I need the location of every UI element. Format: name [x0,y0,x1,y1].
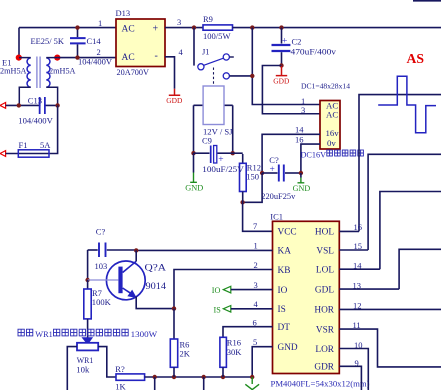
wire port to C13 [6,104,58,106]
svg-text:DC1=48x28x14: DC1=48x28x14 [301,82,350,91]
svg-text:AS: AS [407,52,425,67]
svg-text:16v: 16v [326,128,340,138]
wire LOL to right edge [380,192,441,270]
wire left drop to choke [18,28,20,58]
svg-text:GDL: GDL [315,285,334,295]
junction collector [134,248,138,252]
junction R12 bottom [240,200,244,204]
svg-text:100uF/25V: 100uF/25V [202,164,244,174]
svg-text:R?: R? [115,364,125,374]
wire WR1 right to R? [98,347,116,377]
wire WR1 left drop [67,347,77,390]
inductor E1 core [37,57,40,89]
junction J1 branch [192,25,196,29]
wire rail drop b [203,377,205,390]
svg-text:16: 16 [354,222,363,232]
svg-text:VSR: VSR [316,325,335,335]
junction GND rail [250,375,254,379]
waveform drawing [378,76,436,132]
svg-text:LOL: LOL [316,266,334,276]
capacitor C14 [77,28,79,38]
potentiometer WR1 [82,338,92,345]
svg-text:WR1: WR1 [35,330,53,339]
wire LOR drop [339,349,368,390]
junction C14 top [75,25,79,29]
power port GDD (D13) [169,89,180,96]
svg-text:IS: IS [214,305,222,314]
junction left port [17,103,21,107]
wire C2 to DC1 pin3 [262,66,320,114]
svg-text:2: 2 [254,260,258,270]
bridge rectifier D13 [116,19,165,67]
wire R9 to right edge rail [233,27,441,29]
node choke right top (red) [54,55,60,61]
svg-text:100K: 100K [92,297,112,307]
svg-text:9014: 9014 [146,281,167,291]
svg-text:4: 4 [254,299,259,309]
power port GDD (C2) [276,66,287,76]
wire VSL to right edge [368,154,441,250]
svg-text:1: 1 [254,241,258,251]
svg-text:AC: AC [326,110,338,120]
wire choke to D13 pin2 [57,57,116,59]
svg-text:KB: KB [278,266,291,276]
junction C9 right [231,151,235,155]
relay contact J1 [193,28,195,66]
svg-text:PM4040FL=54x30x12(mm): PM4040FL=54x30x12(mm) [271,380,370,389]
svg-text:10k: 10k [76,364,90,374]
svg-text:-: - [155,51,158,62]
wire C9 right to R12 [233,152,243,154]
wire rail drop a [154,377,156,390]
svg-text:16: 16 [295,135,304,145]
wire KA [136,249,272,251]
junction C? left [260,171,264,175]
svg-text:GDD: GDD [273,77,290,86]
svg-text:1: 1 [98,18,102,28]
wire HOL stub [339,230,359,232]
svg-text:VSL: VSL [316,246,334,256]
wire HOR to edge [339,308,441,310]
ground GND (relay) [193,153,195,172]
svg-text:Q?A: Q?A [145,263,167,273]
svg-text:AC: AC [122,25,135,35]
transistor Q?A 9014 [106,261,145,300]
svg-text:C13: C13 [28,96,42,106]
svg-text:1K: 1K [115,381,126,390]
svg-text:GDD: GDD [166,96,183,105]
svg-text:2: 2 [97,47,101,57]
wire bottom rail [145,376,253,378]
svg-text:IO: IO [212,286,221,295]
resistor R6 [173,309,175,339]
junction C13 right [55,103,59,107]
svg-text:C14: C14 [87,36,102,46]
wire to IC1 VCC [243,202,273,231]
wire GND pin5 [252,347,272,377]
svg-text:HOR: HOR [314,306,334,316]
junction R16 bottom [221,375,225,379]
svg-text:DT: DT [278,323,291,333]
wire D13 pin3 to R9 [165,27,203,29]
svg-text:2mH5A: 2mH5A [49,66,76,76]
svg-text:J1: J1 [202,47,210,57]
svg-text:HOL: HOL [315,228,334,238]
inductor E1 left winding [27,58,31,87]
svg-text:+: + [282,36,287,46]
svg-text:VCC: VCC [278,228,297,238]
svg-text:470uF/400v: 470uF/400v [291,46,337,56]
wire VSR to edge [339,329,441,367]
svg-text:R9: R9 [203,14,213,24]
svg-text:0v: 0v [327,138,336,148]
svg-text:F1: F1 [19,140,28,150]
resistor R7 [87,280,89,289]
junction C2 bottom [279,63,283,67]
wire R9 branch down to DC1 pin1 [252,28,320,105]
resistor R9 [203,25,233,30]
svg-text:GDR: GDR [314,363,334,373]
module DC1 [320,101,340,150]
svg-text:30K: 30K [227,347,243,357]
svg-text:KA: KA [278,247,292,257]
svg-text:LOR: LOR [315,345,334,355]
svg-text:C9: C9 [202,135,212,145]
svg-text:GND: GND [293,184,311,193]
wire port to fuse [6,105,58,153]
junction R6 bottom [172,375,176,379]
wire base node [87,250,89,280]
port L (red arrow) [0,103,6,109]
wire 16v node down to R12 bottom node [243,173,263,202]
junction C2 top [279,25,283,29]
junction C? right / 0v [299,171,303,175]
svg-text:3: 3 [254,280,258,290]
svg-text:14: 14 [295,125,304,135]
wire relay coil frame [193,105,195,153]
wire GDL stub [339,288,399,290]
inductor E1 right winding [46,58,50,87]
port N (red arrow) [0,151,6,157]
wire IS [231,308,273,310]
svg-text:+: + [270,165,275,175]
svg-text:104/400V: 104/400V [18,116,53,126]
wire HOL to top right [359,95,441,232]
svg-text:IC1: IC1 [270,212,283,222]
wire GDR drop [339,366,361,390]
svg-text:AC: AC [122,53,135,63]
wire DT to R16 [223,327,273,338]
junction C14 bottom [75,55,79,59]
wire DC1 0v out [301,144,320,173]
IC U1 PM4040FL [273,221,340,373]
wire IO [231,289,273,291]
svg-text:IO: IO [278,286,288,296]
svg-text:C2: C2 [292,37,302,47]
svg-text:D13: D13 [116,8,131,18]
svg-text:7: 7 [253,221,257,231]
junction rail a [153,375,157,379]
top corner line [413,0,441,2]
svg-text:GND: GND [185,184,203,193]
wire DC1 16v out [262,134,320,173]
svg-text:EE25/ 5K: EE25/ 5K [31,36,65,46]
junction R9 right branch [250,25,254,29]
junction C9 left [191,151,195,155]
ground (bottom rail) [251,377,253,384]
wire KB [174,270,273,309]
svg-text:150: 150 [246,172,259,182]
svg-text:20A700V: 20A700V [117,67,150,77]
resistor R12 [242,154,244,163]
resistor R16 [220,337,227,367]
svg-text:+: + [153,24,159,35]
svg-text:IS: IS [278,305,286,315]
wire LOL stub [339,268,380,270]
svg-text:100/5W: 100/5W [203,31,231,41]
svg-text:4: 4 [179,47,184,57]
junction emitter node [172,306,176,310]
svg-text:GND: GND [278,343,298,353]
svg-text:1300W: 1300W [131,330,158,339]
junction J1-DC1 [250,74,254,78]
annotation: adjust WR1 power limit 1300W [18,329,33,336]
svg-text:5: 5 [253,337,257,347]
fuse F1 [18,150,49,157]
svg-text:C?: C? [96,227,106,237]
capacitor C13 [40,97,45,114]
wire D13 pin4 [165,57,175,89]
junction rail b [202,375,206,379]
svg-text:2mH5A: 2mH5A [0,66,27,76]
relay coil 12V/SJ [203,86,224,125]
svg-text:104/400V: 104/400V [78,56,113,66]
wire top rail left segment [19,27,116,29]
wire J1 lower contact [230,75,253,77]
svg-text:5A: 5A [40,140,51,150]
svg-text:DC16V: DC16V [301,150,327,159]
wire GDL to right edge [399,249,441,289]
ground GND (0v) [300,173,302,178]
wire VSL stub [339,249,368,251]
wire emitter down [136,297,174,309]
svg-text:3: 3 [301,105,305,115]
svg-text:2K: 2K [180,349,191,359]
svg-text:6: 6 [253,317,257,327]
node choke left top (red) [16,55,22,61]
wire collector up [135,250,137,261]
resistor R? 1K [116,374,145,380]
svg-text:C?: C? [269,155,279,165]
dashed actuator link [213,68,215,87]
svg-text:103: 103 [95,261,108,271]
junction base node [85,278,89,282]
svg-text:3: 3 [177,17,181,27]
capacitor C2 [281,28,283,44]
svg-text:220uF25v: 220uF25v [261,191,296,201]
